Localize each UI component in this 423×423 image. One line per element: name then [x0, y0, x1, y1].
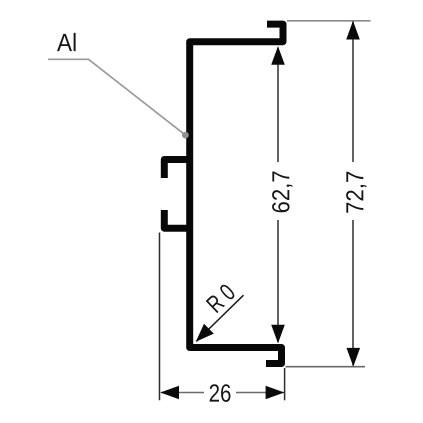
radius callout text R 0	[206, 285, 235, 313]
extension line bottom (72,7)	[286, 366, 366, 368]
radius callout R 0 arrow line	[196, 295, 243, 341]
dimension 26 left arrow	[160, 386, 179, 400]
dimension line 72,7 shaft	[352, 22, 354, 163]
leader line for Al label	[48, 59, 185, 135]
dimension text 62,7	[272, 172, 292, 213]
dimension text 26	[210, 384, 231, 402]
extension line top (72,7)	[287, 20, 371, 22]
profile outline (aluminum extrusion cross-section)	[164, 24, 283, 363]
extension line right (26)	[284, 368, 286, 400]
dimension 62,7 top arrow	[271, 46, 285, 65]
dimension 62,7 bottom arrow	[271, 325, 285, 344]
dimension 72,7 top arrow	[346, 21, 360, 40]
material label Al	[57, 33, 76, 51]
dimension 72,7 bottom arrow	[347, 348, 361, 367]
lower groove arm	[164, 210, 189, 228]
leader dot on profile wall	[182, 132, 189, 139]
dimension line 62,7 shaft	[277, 48, 279, 163]
dimension line 26 shaft	[161, 392, 204, 394]
dimension 26 right arrow	[266, 386, 285, 400]
radius callout arrowhead	[196, 324, 214, 342]
profile main body: top lip, top wall, left wall, bottom wall, bottom lip	[190, 24, 283, 363]
upper groove arm	[164, 160, 189, 179]
dimension text 72,7	[346, 172, 366, 213]
extension line left (26)	[159, 233, 161, 401]
